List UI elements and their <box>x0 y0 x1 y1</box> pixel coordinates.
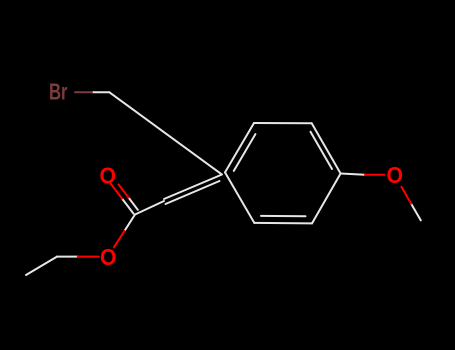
svg-text:O: O <box>100 163 117 189</box>
svg-text:Br: Br <box>49 79 68 105</box>
svg-text:O: O <box>387 162 404 188</box>
svg-text:O: O <box>100 244 117 270</box>
